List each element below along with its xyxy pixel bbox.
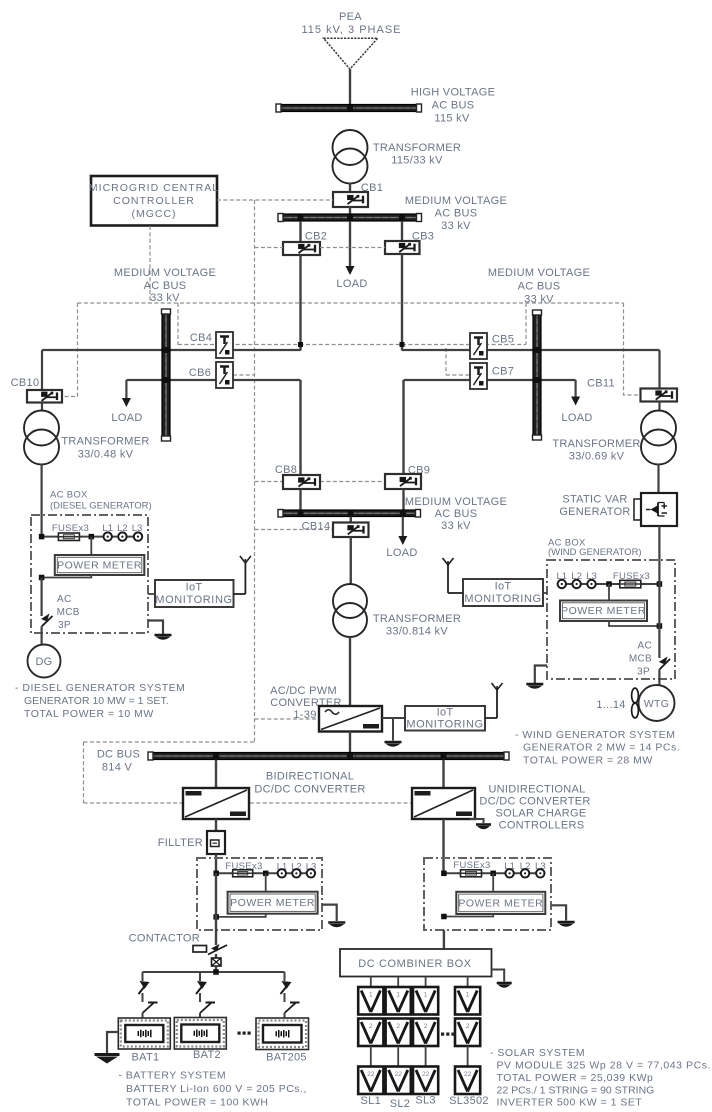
svg-text:- WIND GENERATOR SYSTEM: - WIND GENERATOR SYSTEM [515,729,675,741]
PV module string 3 module 1 [413,987,438,1015]
svg-text:AC BOX: AC BOX [50,490,88,501]
bidirectional DC/DC converter [183,788,249,819]
wire power meter to feeder [42,575,92,578]
svg-text:CB5: CB5 [492,334,514,346]
junction [163,347,169,353]
ground (battery AC box) [322,905,337,921]
control line horizontal distribution [78,302,624,304]
wire [215,954,217,958]
wire [442,819,444,873]
junction [606,581,612,587]
wire [658,526,660,560]
control line to CB11 [624,303,641,395]
generator DG [28,645,61,678]
svg-text:115 kV, 3 PHASE: 115 kV, 3 PHASE [302,24,402,36]
wire [142,1013,144,1018]
wire row CB4 [42,349,301,351]
junction [347,215,353,221]
antenna (diesel IoT) [244,563,246,594]
control line to CB10 [62,303,78,397]
svg-text:STATIC VAR: STATIC VAR [562,494,627,506]
svg-text:1: 1 [396,992,400,999]
control line to AC/DC converter [255,718,320,720]
svg-text:CONTROLLERS: CONTROLLERS [499,820,585,832]
svg-text:MONITORING: MONITORING [406,719,483,731]
medium voltage AC bus 33 kV (middle) [279,510,420,517]
transformer 33/0.69 kV (right) [641,411,676,446]
junction [657,581,663,587]
PV module string 2 module 22 [386,1067,411,1095]
svg-text:- SOLAR SYSTEM: - SOLAR SYSTEM [490,1047,585,1059]
svg-text:LOAD: LOAD [386,547,417,559]
svg-text:BAT2: BAT2 [193,1049,221,1061]
svg-text:33/0.69 kV: 33/0.69 kV [569,451,625,463]
wire power meter to feeder (battery) [216,914,266,917]
control line to CB6 [233,374,255,376]
ellipsis PV strings [441,1033,444,1036]
wire power meter to feeder (solar) [444,914,493,917]
AC box (diesel generator) enclosure [31,515,148,633]
control line from MGCC down [149,226,151,303]
svg-text:TOTAL POWER = 10 MW: TOTAL POWER = 10 MW [24,708,154,720]
svg-text:1: 1 [466,992,470,999]
wire [41,350,43,390]
svg-text:UNIDIRECTIONAL: UNIDIRECTIONAL [488,784,585,796]
wire [442,760,444,789]
svg-text:3P: 3P [58,620,71,631]
ground (BAT1) [107,1032,118,1054]
svg-text:33 kV: 33 kV [150,292,180,304]
junction [213,914,219,920]
switch (branch BAT205) [285,1003,296,1013]
DC combiner box [340,949,492,977]
wire [658,350,660,389]
svg-text:AC BUS: AC BUS [144,280,187,292]
svg-text:(DIESEL GENERATOR): (DIESEL GENERATOR) [50,501,152,512]
junction [399,215,405,221]
svg-text:AC: AC [638,641,653,652]
svg-text:INVERTER 500 KW = 1 SET: INVERTER 500 KW = 1 SET [497,1097,643,1109]
wire [350,537,352,584]
svg-text:1: 1 [369,992,373,999]
wind turbine generator WTG [639,685,675,721]
svg-text:POWER METER: POWER METER [57,560,142,572]
svg-text:CB10: CB10 [11,377,40,389]
wind turbine blades [632,688,639,703]
control line row CB4-CB5 [178,344,526,346]
ellipsis batteries [238,1032,241,1035]
power meter (wind) [560,601,647,622]
wire [284,993,286,1002]
svg-text:IoT: IoT [437,707,454,719]
wire [608,584,610,601]
svg-text:AC BUS: AC BUS [435,208,478,220]
battery AC box enclosure [197,858,322,930]
svg-text:GENERATOR: GENERATOR [559,506,630,518]
svg-text:- BATTERY SYSTEM: - BATTERY SYSTEM [118,1070,226,1082]
wire [299,255,301,351]
PV module string 3 module 22 [413,1067,438,1095]
wire [41,403,43,412]
junction [213,969,219,975]
svg-text:SL3: SL3 [415,1095,435,1107]
ground (solar AC box) [551,905,566,920]
svg-text:TRANSFORMER: TRANSFORMER [61,436,149,448]
svg-text:IoT: IoT [495,581,512,593]
wire [382,717,405,719]
svg-text:22: 22 [422,1071,430,1078]
power meter (solar) [456,892,545,914]
wire [299,489,301,510]
svg-text:MEDIUM VOLTAGE: MEDIUM VOLTAGE [405,496,507,508]
wire [401,221,403,241]
wire [562,583,660,585]
junction [298,510,304,516]
PV module string 4 module 2 [455,1019,480,1047]
wire [349,69,351,105]
IoT monitoring box (converter) [405,706,485,731]
svg-text:CB2: CB2 [305,231,327,243]
PV module string 4 module 22 [455,1067,480,1095]
svg-text:CB11: CB11 [587,378,615,390]
svg-text:WTG: WTG [644,698,669,710]
PV module string 1 module 22 [358,1067,383,1095]
wire row CB5 [402,349,660,351]
wire [199,993,201,1002]
svg-text:1: 1 [424,992,428,999]
wire [215,854,217,873]
junction [441,871,447,877]
wire [199,1013,201,1018]
junction [347,105,353,111]
svg-text:33/0.48 kV: 33/0.48 kV [78,449,134,461]
control line to CB14 [255,529,334,531]
junction [213,753,219,759]
svg-text:33 kV: 33 kV [524,294,554,306]
control line to CB4 [177,303,179,345]
junction [298,342,303,347]
fuse (branch BAT1) [140,981,150,989]
junction [400,510,406,516]
wire [142,993,144,1002]
svg-text:SOLAR CHARGE: SOLAR CHARGE [495,808,586,820]
svg-text:TOTAL POWER = 28 MW: TOTAL POWER = 28 MW [523,755,653,767]
svg-text:(MGCC): (MGCC) [131,208,176,220]
high voltage AC bus 115 kV [277,105,421,112]
wire row CB6 [126,379,300,381]
control line to CB9 [320,481,385,483]
junction [298,215,304,221]
wire [402,489,404,510]
svg-text:2: 2 [466,1023,470,1030]
wire [299,380,301,475]
DC bus 814 V [149,753,508,760]
svg-text:1-39: 1-39 [293,709,316,721]
svg-text:TRANSFORMER: TRANSFORMER [373,142,461,154]
wire [349,183,351,193]
junction [89,534,95,540]
svg-text:115/33 kV: 115/33 kV [391,155,443,167]
control line to CB2 [255,247,284,249]
control line to CB8 [255,481,284,483]
fuse (branch BAT2) [197,981,207,989]
svg-text:(WIND GENERATOR): (WIND GENERATOR) [548,547,642,558]
PV module string 1 module 2 [358,1019,383,1047]
svg-text:CB4: CB4 [190,332,212,344]
PV module string 4 module 1 [455,987,480,1015]
breaker AC MCB 3P (diesel) [40,578,42,617]
svg-text:LOAD: LOAD [561,412,592,424]
control trunk from MGCC [254,200,256,742]
wire PV string stubs row 1 [370,977,372,988]
svg-text:MONITORING: MONITORING [464,593,541,605]
load arrow (top) [346,266,355,275]
AC/DC PWM converter 1-39 [319,706,382,732]
svg-text:SL3502: SL3502 [449,1095,489,1107]
svg-text:CB7: CB7 [492,366,514,378]
svg-text:POWER METER: POWER METER [561,605,646,617]
svg-text:1...14: 1...14 [596,699,625,711]
wire [42,536,138,538]
svg-text:2: 2 [396,1023,400,1030]
antenna (wind IoT) [447,565,449,593]
junction [39,575,45,581]
wire to load (left) [125,380,127,399]
svg-text:GENERATOR 2 MW = 14 PCs.: GENERATOR 2 MW = 14 PCs. [523,742,680,754]
wire [402,380,404,474]
svg-text:TOTAL POWER = 25,039 KWp: TOTAL POWER = 25,039 KWp [497,1072,654,1084]
wire [349,732,351,753]
medium voltage AC bus 33 kV (top) [279,214,421,221]
static var generator [634,499,644,520]
PV module string 2 module 2 [386,1019,411,1047]
svg-text:115 kV: 115 kV [434,113,470,125]
breaker AC MCB 3P (wind) [658,560,660,658]
junction [657,623,663,629]
transformer 33/0.48 kV (left) [24,411,59,446]
wire [349,207,351,214]
AC box (wind generator) enclosure [547,560,675,679]
svg-text:MCB: MCB [629,654,652,665]
antenna (converter IoT) [496,690,498,718]
PV module string 2 module 1 [386,987,411,1015]
fuse (branch BAT205) [282,981,292,989]
control line to CB7 [446,374,470,376]
load arrow (left) [122,398,131,407]
svg-text:22: 22 [395,1071,403,1078]
junction [39,534,45,540]
wire [40,464,42,537]
load arrow (right) [571,397,580,406]
switch (branch BAT1) [143,1003,154,1013]
svg-text:MCB: MCB [57,607,80,618]
ground (wind AC box) [535,666,547,684]
junction [400,342,405,347]
wire branch BAT2 [199,972,201,981]
control line to DC/DC converters [84,741,255,743]
svg-text:LOAD: LOAD [336,278,367,290]
svg-text:PV MODULE 325 Wp 28 V = 77,043: PV MODULE 325 Wp 28 V = 77,043 PCs. [497,1060,711,1072]
wire branch BAT205 [284,972,286,981]
junction [441,914,447,920]
svg-text:CONTROLLER: CONTROLLER [113,195,195,207]
fuse (battery main) [212,958,222,966]
svg-text:BATTERY Li-Ion 600 V = 205 PC: BATTERY Li-Ion 600 V = 205 PCs., [126,1083,307,1095]
svg-text:33 kV: 33 kV [441,520,471,532]
battery BAT205 [256,1018,309,1050]
svg-text:GENERATOR 10 MW = 1 SET.: GENERATOR 10 MW = 1 SET. [24,695,169,707]
switch (branch BAT2) [200,1003,211,1013]
wire [401,254,403,351]
wire PV string stubs row 2-3 [370,1046,372,1067]
ground (unidirectional converter) [470,819,484,823]
svg-text:TOTAL POWER = 100 KWH: TOTAL POWER = 100 KWH [126,1097,268,1109]
control line to CB5 [525,303,527,345]
microgrid central controller MGCC [91,176,217,226]
svg-text:TRANSFORMER: TRANSFORMER [552,438,640,450]
svg-text:MEDIUM VOLTAGE: MEDIUM VOLTAGE [114,267,216,279]
svg-text:BIDIRECTIONAL: BIDIRECTIONAL [266,771,354,783]
wire [657,464,659,493]
svg-text:FILLTER: FILLTER [158,837,203,849]
svg-text:22 PCs./ 1 STRING = 90 STRING: 22 PCs./ 1 STRING = 90 STRING [497,1085,655,1097]
wire battery distribution [143,971,285,973]
wire AC box to IoT monitoring (diesel) [148,593,155,595]
battery BAT2 [174,1018,226,1050]
svg-text:CB6: CB6 [189,367,211,379]
transformer 33/0.814 kV (middle) [333,584,367,618]
svg-text:AC/DC PWM: AC/DC PWM [270,685,337,697]
svg-text:HIGH VOLTAGE: HIGH VOLTAGE [411,87,495,99]
wire [658,402,660,412]
junction [490,871,496,877]
battery BAT1 [118,1018,170,1049]
svg-text:TRANSFORMER: TRANSFORMER [373,613,461,625]
svg-text:AC BUS: AC BUS [518,281,561,293]
medium voltage AC bus 33 kV (right) [533,311,541,439]
svg-text:MEDIUM VOLTAGE: MEDIUM VOLTAGE [405,195,507,207]
svg-text:2: 2 [424,1023,428,1030]
junction [213,871,219,877]
svg-text:BAT205: BAT205 [266,1052,307,1064]
svg-text:AC: AC [57,594,72,605]
ground (AC/DC converter) [392,718,394,741]
wire AC box to IoT monitoring (wind) [543,592,547,594]
PV module string 1 module 1 [358,987,383,1015]
ground (diesel AC box) [148,621,163,635]
solar AC box enclosure [424,858,551,930]
power meter (battery) [228,892,318,914]
wire [349,637,351,706]
svg-text:AC BUS: AC BUS [435,508,478,520]
wire [90,537,92,555]
PV module string 3 module 2 [413,1019,438,1047]
wire [265,873,267,891]
wire [443,930,445,949]
control line to CB3 [320,247,385,249]
svg-text:DC COMBINER BOX: DC COMBINER BOX [358,958,472,970]
svg-text:DC/DC CONVERTER: DC/DC CONVERTER [254,784,365,796]
wire [444,872,540,874]
wire to load (right) [574,380,576,398]
wire [216,872,311,874]
svg-text:22: 22 [367,1071,375,1078]
svg-text:33/0.814 kV: 33/0.814 kV [386,626,448,638]
junction [263,871,269,877]
load arrow (middle) [398,536,407,545]
svg-text:BAT1: BAT1 [132,1052,160,1064]
wire [284,1013,286,1018]
wire power meter to feeder (wind) [609,621,659,626]
junction [348,510,354,516]
junction [163,377,169,383]
svg-text:AC BUS: AC BUS [432,100,475,112]
svg-text:MICROGRID CENTRAL: MICROGRID CENTRAL [89,182,219,194]
svg-text:CB14: CB14 [302,521,331,533]
svg-text:CONTACTOR: CONTACTOR [129,933,200,945]
svg-text:SL1: SL1 [361,1095,381,1107]
svg-text:SL2: SL2 [390,1098,410,1110]
svg-text:3P: 3P [637,667,650,678]
wire [215,760,217,789]
svg-text:POWER METER: POWER METER [230,897,315,909]
svg-text:2: 2 [369,1023,373,1030]
junction [441,753,447,759]
svg-text:DC BUS: DC BUS [97,749,140,761]
ground (DC combiner box) [492,970,505,982]
wire to load (top) [349,221,351,267]
wire [215,819,217,831]
delta winding symbol (PEA 115 kV source) [324,38,378,69]
junction [347,753,353,759]
svg-text:MONITORING: MONITORING [155,594,232,606]
svg-text:MEDIUM VOLTAGE: MEDIUM VOLTAGE [488,267,590,279]
wire row CB7 [404,379,576,381]
svg-text:IoT: IoT [186,582,203,594]
svg-text:PEA: PEA [339,11,362,23]
transformer 115/33 kV [333,130,368,165]
IoT monitoring box (diesel) [155,580,234,607]
wire [215,873,217,945]
junction [534,347,540,353]
svg-text:POWER METER: POWER METER [458,898,543,910]
wire [215,966,217,972]
svg-text:814 V: 814 V [102,762,133,774]
svg-text:- DIESEL GENERATOR SYSTEM: - DIESEL GENERATOR SYSTEM [15,682,185,694]
svg-text:LOAD: LOAD [111,412,142,424]
svg-text:DG: DG [35,656,52,668]
wire to load (middle) [402,517,404,537]
wire [492,873,494,892]
IoT monitoring box (wind) [463,579,543,606]
svg-text:DC/DC CONVERTER: DC/DC CONVERTER [479,796,590,808]
control line MGCC to CB1 [217,199,333,201]
wire [299,221,301,242]
junction [534,377,540,383]
wire branch BAT1 [142,972,144,981]
power meter (diesel) [55,555,145,575]
unidirectional DC/DC converter [412,788,475,819]
svg-text:22: 22 [464,1071,472,1078]
medium voltage AC bus 33 kV (left) [162,310,170,440]
svg-text:33 kV: 33 kV [441,220,471,232]
